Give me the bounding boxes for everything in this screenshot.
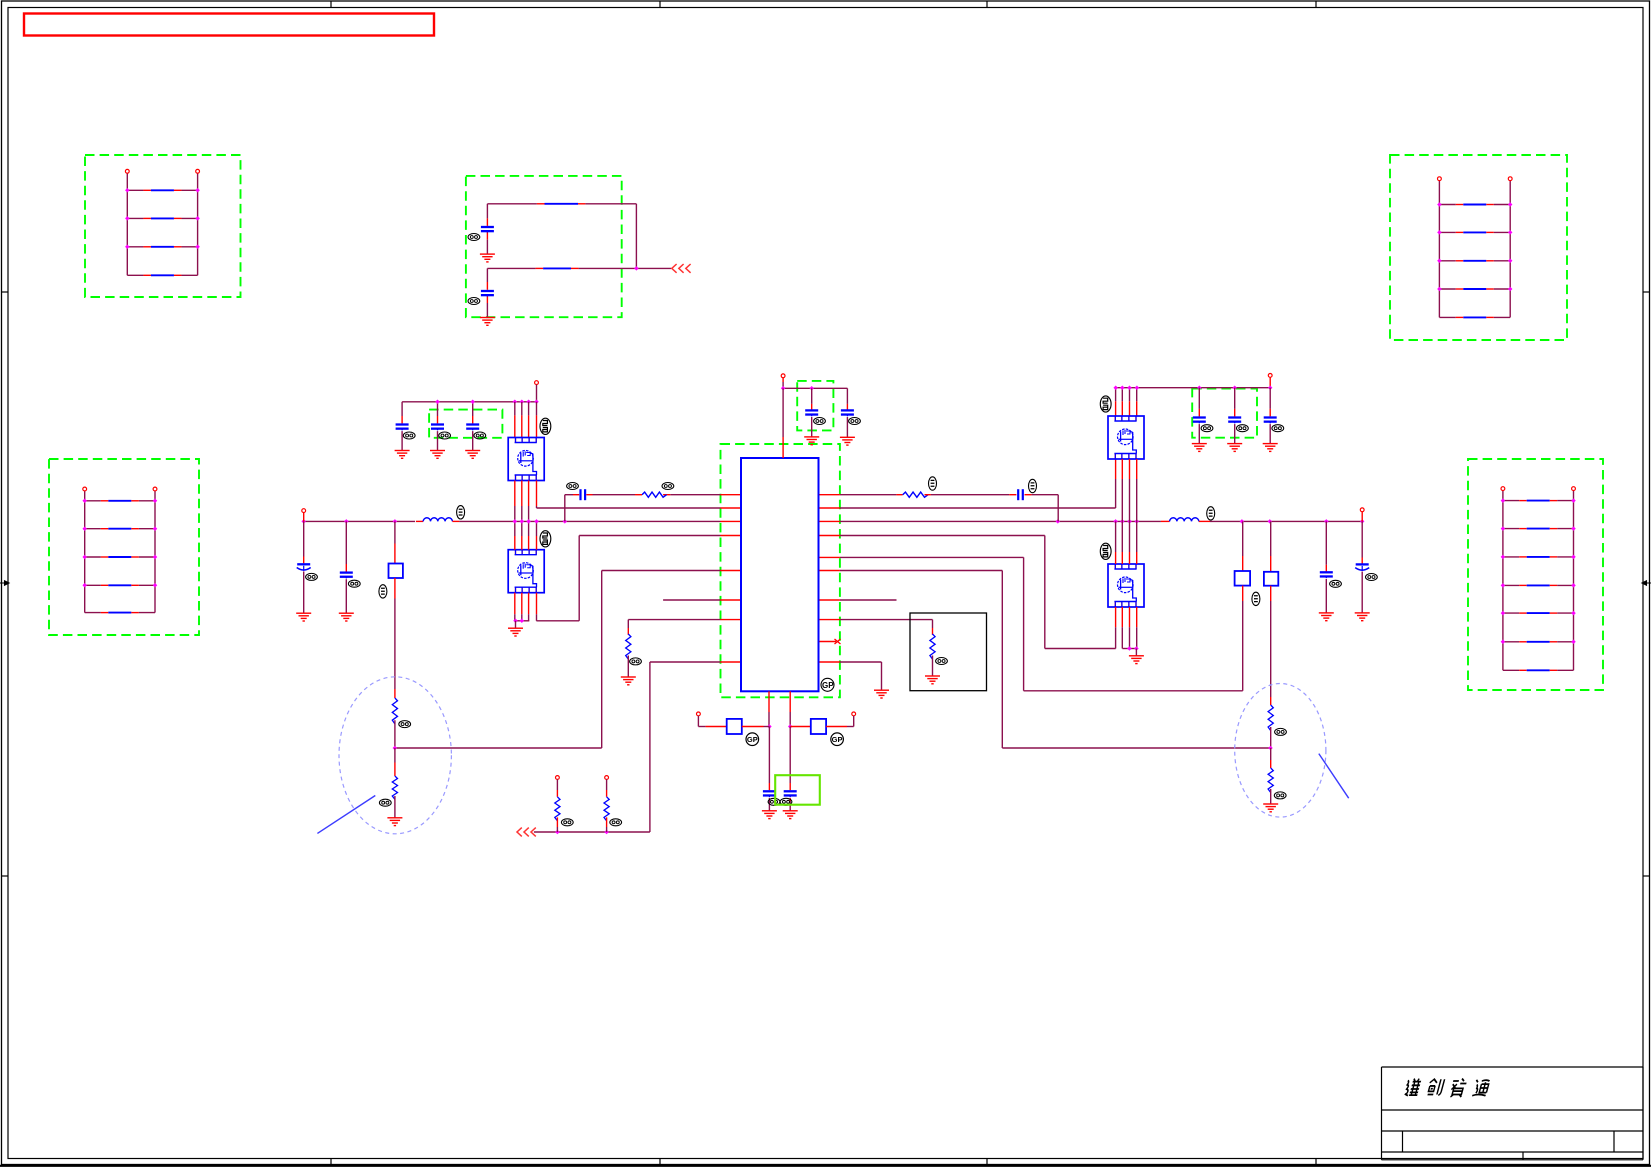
svg-text:GP: GP <box>747 735 758 744</box>
svg-text:GP: GP <box>832 735 843 744</box>
